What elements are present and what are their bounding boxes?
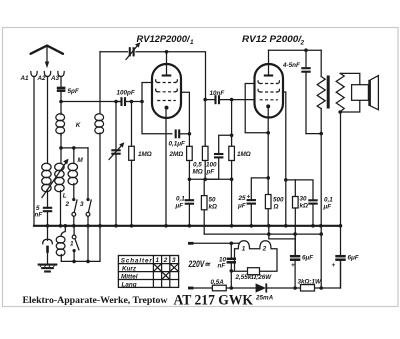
capacitor 6uF first (290, 234, 313, 290)
coil L2 (55, 163, 67, 226)
wire to coil L2 (60, 148, 62, 164)
variometer arrow (42, 159, 69, 198)
resistor 3k ohm 1W (298, 279, 323, 292)
primary winding (306, 50, 325, 135)
svg-text:1: 1 (242, 246, 246, 253)
label tube1 (137, 34, 195, 46)
tuning capacitor (109, 102, 124, 226)
switch 2 (65, 198, 78, 226)
wire top coil bus (61, 146, 88, 150)
maker text (23, 295, 168, 305)
svg-text:Kurz: Kurz (122, 265, 137, 272)
resistor 30k ohm (293, 180, 309, 256)
svg-text:6μF: 6μF (348, 255, 359, 262)
capacitor 10nF coupling (205, 90, 254, 104)
wire to coil M (73, 148, 75, 164)
resistor 500 ohm (265, 195, 284, 226)
screen wire tube2 (283, 92, 288, 226)
svg-text:+: + (332, 262, 336, 269)
svg-text:L: L (63, 193, 67, 200)
svg-text:4-5nF: 4-5nF (282, 62, 300, 69)
svg-text:0,5A: 0,5A (211, 279, 225, 286)
capacitor 5nF (35, 205, 53, 226)
barretter feed wire (269, 226, 295, 239)
svg-text:1MΩ: 1MΩ (237, 151, 251, 158)
capacitor 100pF (second) (205, 134, 233, 180)
mains bottom rail (190, 260, 341, 288)
label 220V (188, 259, 211, 269)
svg-text:220V≃: 220V≃ (188, 259, 211, 269)
resistor 1M ohm (tube1) (129, 102, 152, 226)
svg-text:2: 2 (163, 257, 168, 264)
wire to switch 3 (87, 148, 89, 200)
svg-text:Elektro-Apparate-Werke, Trepto: Elektro-Apparate-Werke, Treptow (23, 295, 168, 305)
coil K (56, 113, 81, 136)
transformer core (327, 76, 330, 109)
tube U1 (152, 52, 181, 118)
svg-text:RV12 P2000/: RV12 P2000/ (242, 34, 303, 44)
capacitor 0,1uF cathode (175, 179, 195, 226)
svg-text:3kΩ;1W: 3kΩ;1W (298, 279, 323, 286)
svg-text:2: 2 (300, 40, 305, 47)
svg-text:Ω: Ω (273, 204, 279, 211)
svg-text:2,55kΩ;26W: 2,55kΩ;26W (235, 274, 273, 281)
svg-text:A2: A2 (37, 75, 47, 82)
switch table (118, 256, 178, 289)
svg-text:3: 3 (80, 201, 84, 208)
svg-text:1: 1 (156, 257, 160, 264)
capacitor 6uF second (332, 255, 359, 289)
svg-text:25: 25 (238, 195, 247, 202)
capacitor 5pF (57, 88, 79, 95)
screen feed wire (286, 180, 313, 200)
screen wire tube1 (181, 92, 191, 135)
svg-text:0,5: 0,5 (193, 162, 202, 169)
wire A2 down to coil L1 (47, 77, 49, 164)
wire K coil to junction (59, 134, 63, 150)
wire A3 below 5pF (59, 92, 63, 113)
svg-text:500: 500 (273, 197, 284, 204)
svg-text:2: 2 (262, 246, 267, 253)
speaker return wire (340, 112, 342, 256)
speaker loop wires (338, 73, 359, 113)
B+ vertical wire (319, 134, 323, 290)
svg-text:nF: nF (218, 263, 226, 270)
model text (174, 293, 254, 309)
resistor 50k ohm (201, 179, 217, 234)
label tube2 (242, 34, 305, 47)
capacitor 0,1uF grid2 (169, 129, 190, 147)
svg-text:+: + (291, 262, 295, 269)
coil L1 variable (42, 163, 51, 206)
svg-text:3: 3 (172, 257, 176, 264)
screen bleeder line (204, 232, 321, 236)
cathode wire tube2 (266, 107, 270, 195)
grid1 wire tube1 (140, 83, 172, 134)
svg-text:6μF: 6μF (302, 255, 313, 262)
svg-text:kΩ: kΩ (209, 204, 218, 211)
svg-text:μF: μF (323, 204, 332, 211)
terminal A2 (37, 72, 51, 83)
terminal A1 (20, 72, 38, 83)
tube1 top wire (100, 50, 206, 100)
svg-text:A1: A1 (20, 75, 30, 82)
resistor 2M ohm (169, 134, 193, 181)
capacitor 0,1uF screen (308, 197, 333, 226)
speaker magnet (352, 85, 369, 101)
svg-text:K: K (76, 122, 81, 129)
svg-text:100pF: 100pF (117, 90, 135, 97)
svg-text:μF: μF (237, 203, 246, 210)
terminal A3 (50, 72, 64, 83)
secondary winding (336, 73, 344, 112)
heater return wire (61, 226, 100, 263)
svg-text:Schalter: Schalter (121, 257, 153, 264)
fuse 0,5A (211, 279, 227, 291)
mains top wire (190, 242, 239, 246)
svg-text:10nF: 10nF (210, 90, 225, 97)
switch 1 (70, 226, 79, 262)
cathode wire tube1 (165, 108, 167, 226)
coil M (68, 157, 83, 200)
svg-text:0,1: 0,1 (324, 197, 333, 204)
svg-text:+: + (247, 194, 251, 201)
wire A1 down (33, 77, 35, 226)
svg-text:μF: μF (175, 203, 184, 210)
mains terminal bottom (188, 287, 194, 290)
ground (39, 265, 57, 272)
svg-text:Lang: Lang (122, 281, 137, 288)
svg-text:pF: pF (206, 169, 215, 176)
capacitor 25uF (237, 178, 268, 226)
anode wire tube2 (269, 48, 322, 52)
svg-text:RV12P2000/: RV12P2000/ (137, 34, 192, 44)
capacitor 4-5nF (282, 50, 311, 133)
svg-text:25mA: 25mA (255, 295, 274, 302)
svg-text:Mittel: Mittel (121, 273, 138, 280)
svg-text:MΩ: MΩ (193, 169, 203, 176)
svg-text:1: 1 (70, 241, 74, 248)
resistor 0,5M ohm (193, 98, 209, 181)
tube U2 (255, 50, 284, 117)
trimmer capacitor (126, 42, 140, 59)
svg-text:nF: nF (35, 212, 43, 219)
svg-text:2: 2 (65, 201, 70, 208)
resistor 1M ohm (tube2 grid leak) (229, 100, 251, 226)
svg-text:1MΩ: 1MΩ (138, 151, 152, 158)
svg-text:1: 1 (190, 39, 194, 46)
switch 3 (80, 198, 91, 226)
trimmer cap to ground (43, 226, 53, 264)
svg-text:100: 100 (206, 162, 217, 169)
capacitor 100pF (114, 90, 142, 107)
grid coil (95, 52, 104, 226)
svg-text:5pF: 5pF (68, 88, 79, 95)
speaker cone (370, 76, 379, 110)
svg-text:50: 50 (209, 197, 217, 204)
heater coil (56, 226, 65, 262)
chassis bus (34, 224, 342, 228)
suppressor tie wire (245, 84, 270, 135)
wire A3 down (60, 77, 62, 87)
diode 25mA (255, 283, 274, 301)
svg-text:0,1μF: 0,1μF (169, 141, 186, 148)
AVC wire (189, 178, 231, 180)
node wire to 100pF (61, 101, 120, 103)
svg-text:0,1: 0,1 (176, 196, 185, 203)
mains terminal top (188, 242, 194, 245)
svg-text:A3: A3 (50, 75, 60, 82)
antenna (31, 46, 64, 69)
svg-text:2MΩ: 2MΩ (169, 151, 184, 158)
svg-text:M: M (78, 157, 84, 164)
barretter 2,55k ohm 26W (231, 241, 277, 281)
capacitor 10nF mains (218, 243, 237, 290)
svg-text:30: 30 (300, 196, 308, 203)
svg-text:AT 217 GWK: AT 217 GWK (174, 293, 254, 309)
svg-text:kΩ: kΩ (300, 203, 309, 210)
